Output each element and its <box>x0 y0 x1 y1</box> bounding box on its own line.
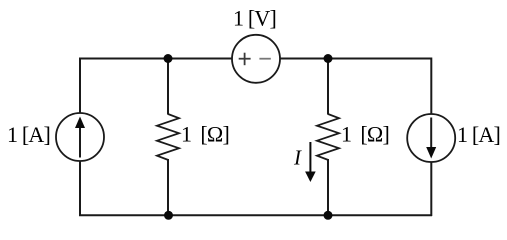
wire right vertical lower <box>430 162 432 216</box>
wire bottom <box>79 214 432 216</box>
resistor R1 <box>157 114 179 160</box>
V1 plus sign <box>239 53 251 65</box>
wire resistor R1 bottom lead <box>167 159 169 215</box>
svg-text:1 [A]: 1 [A] <box>7 122 50 147</box>
wire left vertical upper <box>79 58 81 114</box>
voltage source V1 <box>232 35 280 83</box>
resistor R2 <box>317 114 339 160</box>
node B junction dot <box>324 54 333 63</box>
wire right vertical upper <box>430 58 432 115</box>
wire top-left segment <box>80 58 233 60</box>
svg-text:1 [V]: 1 [V] <box>233 6 276 31</box>
wire left vertical lower <box>79 161 81 216</box>
node A junction dot <box>164 54 173 63</box>
wire resistor R2 top lead <box>327 59 329 115</box>
wire top-right segment <box>279 58 431 60</box>
svg-text:1 [Ω]: 1 [Ω] <box>181 122 229 147</box>
node D junction dot <box>324 211 333 220</box>
svg-text:I: I <box>293 146 302 170</box>
wire resistor R1 top lead <box>167 59 169 115</box>
current arrow I <box>305 142 316 182</box>
svg-text:1 [A]: 1 [A] <box>457 122 500 147</box>
current source I2 (right) <box>407 114 455 162</box>
svg-text:1 [Ω]: 1 [Ω] <box>341 122 389 147</box>
wire resistor R2 bottom lead <box>327 159 329 215</box>
V1 minus sign <box>259 58 270 60</box>
current source I1 (left) <box>56 113 104 161</box>
node C junction dot <box>164 211 173 220</box>
